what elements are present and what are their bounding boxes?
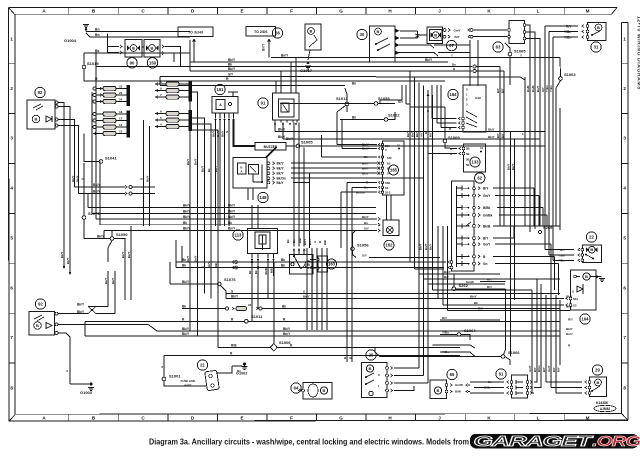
svg-text:Bk/Y: Bk/Y bbox=[183, 204, 191, 208]
svg-text:Bk/Y: Bk/Y bbox=[186, 256, 190, 262]
svg-text:S1022: S1022 bbox=[388, 113, 400, 118]
wire row Bk/Y pair lower bbox=[85, 321, 573, 336]
svg-text:21: 21 bbox=[200, 363, 205, 368]
grid row numbers right bbox=[623, 37, 626, 391]
wire row Bk/Y mid bbox=[226, 293, 573, 298]
svg-text:B/W: B/W bbox=[455, 390, 461, 394]
connector 163 bbox=[310, 256, 337, 272]
relay 133 bbox=[428, 144, 486, 172]
svg-text:R/B: R/B bbox=[298, 238, 302, 243]
node S1001 and fuse link 21 bbox=[162, 360, 219, 391]
svg-text:Diagram 3a. Ancillary circuits: Diagram 3a. Ancillary circuits - wash/wi… bbox=[149, 438, 469, 447]
node S1006 diamond bbox=[218, 262, 571, 351]
svg-text:4: 4 bbox=[10, 186, 13, 191]
svg-text:Bk/Y: Bk/Y bbox=[507, 164, 511, 170]
svg-text:B: B bbox=[132, 46, 135, 51]
grid row numbers left bbox=[10, 37, 13, 391]
svg-text:Bk/Y: Bk/Y bbox=[419, 244, 423, 250]
svg-text:63: 63 bbox=[496, 45, 501, 50]
svg-text:Bn/Y: Bn/Y bbox=[281, 54, 289, 58]
svg-text:V: V bbox=[385, 148, 387, 152]
svg-text:Bk/Y: Bk/Y bbox=[511, 164, 515, 170]
svg-text:S4: S4 bbox=[387, 172, 391, 176]
svg-text:L: L bbox=[537, 416, 540, 421]
svg-text:B: B bbox=[323, 388, 326, 393]
svg-text:Bk/Y: Bk/Y bbox=[183, 210, 191, 214]
intermittent wiper relay 161 bbox=[212, 84, 238, 120]
svg-text:J: J bbox=[438, 416, 441, 421]
svg-text:Bk/Y: Bk/Y bbox=[415, 131, 419, 137]
svg-text:62: 62 bbox=[477, 176, 482, 181]
svg-text:Bk/Y: Bk/Y bbox=[183, 215, 191, 219]
svg-text:B1: B1 bbox=[387, 167, 391, 171]
svg-text:12•70 WIRING DIAGRAMS: 12•70 WIRING DIAGRAMS bbox=[636, 16, 640, 90]
svg-text:Bk/Y: Bk/Y bbox=[228, 58, 236, 62]
svg-text:M: M bbox=[586, 416, 590, 421]
svg-text:Gn/W: Gn/W bbox=[466, 280, 474, 284]
svg-text:Y/Bn: Y/Bn bbox=[564, 30, 571, 34]
svg-text:22: 22 bbox=[589, 235, 594, 240]
fusebox group upper-right bbox=[155, 80, 192, 102]
svg-text:Bn: Bn bbox=[95, 33, 100, 37]
svg-text:Bk/Y: Bk/Y bbox=[212, 131, 216, 137]
svg-text:S1064: S1064 bbox=[464, 328, 476, 333]
svg-text:R/Y: R/Y bbox=[552, 367, 556, 372]
svg-text:66: 66 bbox=[275, 31, 280, 36]
node S1076 bbox=[170, 262, 236, 293]
svg-text:B/Y: B/Y bbox=[501, 88, 505, 93]
svg-text:6: 6 bbox=[623, 286, 626, 291]
svg-text:S1065: S1065 bbox=[514, 49, 526, 54]
svg-text:Bk/Y: Bk/Y bbox=[278, 135, 286, 139]
ground G1002 bbox=[216, 362, 248, 375]
svg-text:R/Y: R/Y bbox=[442, 316, 447, 320]
svg-text:Bk/Y: Bk/Y bbox=[111, 278, 115, 284]
svg-text:B: B bbox=[434, 33, 437, 38]
svg-text:R/Y: R/Y bbox=[557, 367, 561, 372]
wire bus upper runs bbox=[96, 40, 560, 85]
node S1041 bbox=[84, 134, 117, 164]
svg-text:R/Y: R/Y bbox=[478, 307, 483, 311]
ignition switch 30 bbox=[357, 26, 400, 62]
svg-text:Bn/Y: Bn/Y bbox=[411, 130, 415, 137]
connector 31 top right bbox=[545, 23, 606, 53]
wires from 161 pins down bbox=[212, 120, 230, 226]
grid row ticks right bbox=[622, 64, 628, 363]
ground G1003 bbox=[65, 369, 94, 395]
svg-text:B: B bbox=[437, 388, 440, 393]
svg-text:Bn/Y: Bn/Y bbox=[308, 238, 312, 245]
svg-text:Bk/Y: Bk/Y bbox=[127, 252, 131, 258]
svg-text:Bk/Y: Bk/Y bbox=[277, 181, 285, 185]
wire verticals between 30 and 164 bbox=[380, 85, 410, 104]
central locking control unit 148 bbox=[233, 158, 286, 203]
svg-text:Bk/Y: Bk/Y bbox=[121, 252, 125, 258]
fusebox group upper-left bbox=[93, 84, 130, 106]
wires from 92 bottom bbox=[58, 314, 157, 384]
svg-text:R: R bbox=[424, 132, 428, 134]
svg-text:Bn: Bn bbox=[95, 28, 100, 32]
svg-text:B: B bbox=[597, 380, 600, 385]
svg-text:Bn/Y: Bn/Y bbox=[444, 270, 451, 274]
wires into 164 bbox=[426, 85, 457, 128]
svg-text:Bk/Y: Bk/Y bbox=[278, 128, 286, 132]
svg-text:53A: 53A bbox=[385, 144, 390, 148]
alternator box E1 bbox=[305, 24, 321, 60]
wire Bn run row4 bbox=[160, 82, 356, 86]
svg-text:Bk: Bk bbox=[292, 239, 296, 243]
node S1056 bbox=[351, 231, 440, 258]
svg-text:91: 91 bbox=[261, 101, 266, 106]
svg-text:R/B: R/B bbox=[231, 343, 237, 347]
svg-text:B: B bbox=[307, 262, 310, 267]
svg-text:S1019: S1019 bbox=[87, 61, 99, 66]
svg-text:S1013: S1013 bbox=[336, 96, 348, 101]
svg-text:F: F bbox=[290, 416, 293, 421]
svg-text:Y/Bn: Y/Bn bbox=[549, 85, 553, 92]
svg-text:Bk: Bk bbox=[182, 264, 186, 268]
door lock motor 113 bbox=[233, 188, 278, 260]
svg-text:Bn/Y: Bn/Y bbox=[536, 85, 540, 92]
svg-text:Bk: Bk bbox=[281, 258, 285, 262]
svg-text:Bn/Y: Bn/Y bbox=[194, 158, 198, 165]
svg-text:B/Bk: B/Bk bbox=[483, 206, 490, 210]
wire Bn pair to G1004 bbox=[86, 28, 190, 38]
svg-text:148: 148 bbox=[260, 195, 268, 200]
grid column ticks top bbox=[69, 8, 565, 15]
svg-text:Gn/Y: Gn/Y bbox=[454, 29, 462, 33]
interior light connector 22 bbox=[545, 232, 602, 263]
wire left verticals bbox=[60, 120, 150, 275]
svg-text:5: 5 bbox=[623, 236, 626, 241]
svg-text:G1017: G1017 bbox=[300, 68, 313, 73]
svg-text:B/Y: B/Y bbox=[496, 88, 500, 93]
svg-text:B: B bbox=[349, 357, 353, 359]
svg-text:Bk/Y: Bk/Y bbox=[406, 131, 410, 137]
svg-text:B: B bbox=[377, 29, 380, 34]
svg-text:S1041: S1041 bbox=[105, 156, 117, 161]
wiper switch 164 bbox=[448, 85, 486, 132]
node S1022 bbox=[340, 112, 400, 121]
svg-text:FUSE LINK: FUSE LINK bbox=[181, 379, 196, 383]
inline connector 67 bbox=[427, 27, 507, 51]
junction dots rows bbox=[232, 261, 259, 269]
svg-text:8: 8 bbox=[623, 386, 626, 391]
svg-text:Bk/Y: Bk/Y bbox=[66, 258, 70, 264]
fusebox group lower-right bbox=[155, 109, 192, 131]
wire rows left mid bbox=[75, 160, 156, 195]
wires relay 91 connections bbox=[275, 58, 302, 247]
svg-text:G1002: G1002 bbox=[236, 372, 247, 376]
svg-text:R/B: R/B bbox=[323, 240, 327, 245]
svg-text:3: 3 bbox=[623, 136, 626, 141]
svg-text:Bk/Y: Bk/Y bbox=[146, 176, 150, 182]
svg-text:161: 161 bbox=[217, 87, 225, 92]
rear wash wipe unit 62 bbox=[448, 173, 493, 271]
svg-text:R/Y: R/Y bbox=[566, 25, 572, 29]
svg-text:Bn: Bn bbox=[364, 221, 368, 225]
grid column letters top bbox=[42, 9, 589, 14]
svg-text:B: B bbox=[35, 117, 38, 122]
svg-text:S: S bbox=[572, 289, 574, 293]
wire bus right verticals upper bbox=[541, 26, 553, 260]
svg-text:Gn/Y: Gn/Y bbox=[547, 365, 551, 372]
svg-text:164: 164 bbox=[450, 92, 458, 97]
svg-text:8: 8 bbox=[10, 386, 13, 391]
svg-text:Bk/Y: Bk/Y bbox=[228, 215, 236, 219]
svg-text:Bk/Y: Bk/Y bbox=[277, 167, 285, 171]
wires right of 62 bbox=[493, 188, 560, 295]
svg-text:Y: Y bbox=[451, 54, 453, 58]
svg-text:2: 2 bbox=[623, 86, 626, 91]
node S1064 bbox=[440, 316, 500, 340]
wires into 164 right bbox=[438, 295, 570, 311]
wires from 92 to fuse rows bbox=[58, 103, 79, 161]
svg-text:165: 165 bbox=[390, 168, 398, 173]
svg-text:B/Y: B/Y bbox=[542, 367, 546, 372]
wires from 113 down bbox=[248, 260, 274, 321]
washer pump 92 top bbox=[27, 87, 58, 129]
svg-text:Bk: Bk bbox=[254, 270, 258, 274]
wires from switch 30 bbox=[395, 45, 470, 56]
svg-text:6: 6 bbox=[10, 286, 13, 291]
node S1019 bbox=[82, 53, 99, 81]
relay 63 top bbox=[470, 21, 540, 233]
svg-text:N: N bbox=[225, 131, 229, 133]
svg-text:S3: S3 bbox=[573, 304, 577, 308]
svg-text:Bk/Y: Bk/Y bbox=[183, 227, 191, 231]
svg-text:20: 20 bbox=[119, 91, 123, 95]
wire R run bbox=[84, 77, 445, 81]
svg-text:Y: Y bbox=[521, 133, 525, 135]
svg-text:18: 18 bbox=[119, 110, 123, 114]
svg-text:Bk/Y: Bk/Y bbox=[228, 210, 236, 214]
connector 65 bbox=[430, 369, 470, 398]
node S1079 bbox=[82, 163, 100, 239]
svg-text:E: E bbox=[240, 416, 243, 421]
svg-text:B: B bbox=[36, 323, 39, 328]
svg-text:90: 90 bbox=[130, 60, 135, 65]
svg-text:S/Y: S/Y bbox=[362, 254, 367, 258]
svg-text:31: 31 bbox=[594, 45, 599, 50]
svg-text:GARAGET: GARAGET bbox=[474, 433, 594, 450]
wire left verticals lower bbox=[121, 226, 131, 300]
node S1055 bbox=[280, 96, 404, 105]
node S1050 bbox=[84, 230, 128, 300]
svg-text:Bk/Y: Bk/Y bbox=[362, 215, 369, 219]
svg-text:Bk/Y: Bk/Y bbox=[77, 302, 85, 306]
wire row R to S1001 bbox=[160, 352, 460, 378]
label TO 2/D6 bbox=[246, 27, 276, 58]
relay 91 bbox=[258, 88, 299, 125]
svg-text:S1009: S1009 bbox=[448, 135, 460, 140]
svg-text:U: U bbox=[378, 373, 380, 377]
svg-text:E: E bbox=[240, 9, 243, 14]
node S262 bbox=[452, 274, 505, 355]
svg-text:Bk/Y: Bk/Y bbox=[231, 294, 239, 298]
connector 66 bbox=[272, 28, 282, 38]
svg-text:B/Y: B/Y bbox=[496, 133, 500, 138]
svg-text:S3: S3 bbox=[385, 186, 389, 190]
wires from 148 to right bbox=[291, 162, 424, 183]
svg-text:1: 1 bbox=[623, 37, 626, 42]
svg-text:S/Y: S/Y bbox=[364, 227, 369, 231]
svg-text:5B: 5B bbox=[466, 152, 470, 156]
svg-text:Bn/Y: Bn/Y bbox=[362, 166, 369, 170]
svg-text:Gn/Bk: Gn/Bk bbox=[483, 214, 493, 218]
svg-text:Bk/Y: Bk/Y bbox=[182, 280, 190, 284]
svg-text:164: 164 bbox=[582, 317, 590, 322]
wiper motor unit 165 bbox=[379, 141, 405, 195]
svg-text:53-2: 53-2 bbox=[385, 191, 391, 195]
garaget.org logo bbox=[470, 433, 640, 450]
svg-text:22: 22 bbox=[119, 84, 123, 88]
svg-text:Y/Bn: Y/Bn bbox=[564, 36, 571, 40]
svg-text:61: 61 bbox=[499, 372, 504, 377]
svg-text:B: B bbox=[310, 29, 313, 34]
svg-text:Bk/B: Bk/B bbox=[483, 224, 491, 228]
svg-text:Bk/Y: Bk/Y bbox=[77, 310, 85, 314]
svg-text:16: 16 bbox=[119, 123, 123, 127]
node S1011 bbox=[85, 314, 573, 323]
svg-text:TO 3c/43: TO 3c/43 bbox=[188, 31, 203, 35]
svg-text:Bk/Y: Bk/Y bbox=[214, 166, 218, 172]
svg-text:R/Y: R/Y bbox=[568, 317, 573, 321]
svg-text:Bk/Y: Bk/Y bbox=[182, 332, 190, 336]
svg-text:Bn: Bn bbox=[352, 82, 356, 86]
svg-text:Bn/Y: Bn/Y bbox=[194, 255, 198, 262]
washer pump motor 162 bbox=[383, 195, 399, 250]
svg-text:65: 65 bbox=[450, 372, 455, 377]
heated rear window 64 bbox=[291, 383, 332, 400]
svg-text:Bk/Y: Bk/Y bbox=[186, 159, 190, 165]
svg-text:Bn/R: Bn/R bbox=[526, 85, 530, 92]
svg-text:5: 5 bbox=[10, 236, 13, 241]
wires fusebox right tails bbox=[186, 86, 218, 347]
ground G1017 bbox=[300, 62, 313, 74]
svg-text:Bk/Y: Bk/Y bbox=[488, 128, 495, 132]
svg-text:Bk/Y: Bk/Y bbox=[303, 294, 310, 298]
svg-text:S1056: S1056 bbox=[357, 243, 369, 248]
svg-text:Bk/Y: Bk/Y bbox=[97, 235, 105, 239]
svg-text:B/Y: B/Y bbox=[444, 275, 449, 279]
svg-text:1: 1 bbox=[10, 37, 13, 42]
svg-text:Bk: Bk bbox=[474, 301, 478, 305]
svg-text:S1076: S1076 bbox=[224, 277, 236, 282]
svg-text:31: 31 bbox=[397, 144, 400, 148]
svg-text:S1001: S1001 bbox=[169, 374, 181, 379]
svg-text:Bk/Y: Bk/Y bbox=[228, 204, 236, 208]
svg-text:B/Gn: B/Gn bbox=[537, 365, 541, 372]
svg-text:Bn/Y: Bn/Y bbox=[566, 332, 573, 336]
washer pump 92 bottom bbox=[29, 299, 58, 335]
svg-text:R/Y: R/Y bbox=[487, 285, 492, 289]
svg-text:31: 31 bbox=[480, 146, 484, 150]
svg-text:B/Y: B/Y bbox=[483, 187, 489, 191]
svg-text:Bk: Bk bbox=[207, 168, 211, 172]
svg-text:113: 113 bbox=[235, 233, 242, 238]
svg-text:Bn/Y: Bn/Y bbox=[424, 243, 428, 250]
svg-text:S1066: S1066 bbox=[508, 350, 520, 355]
svg-text:Y/Bn: Y/Bn bbox=[442, 331, 449, 335]
svg-text:.ORG: .ORG bbox=[592, 433, 640, 450]
svg-text:R/Y: R/Y bbox=[429, 132, 433, 137]
svg-text:Gn/Y: Gn/Y bbox=[483, 194, 491, 198]
svg-text:Bk/Y: Bk/Y bbox=[429, 244, 433, 250]
svg-text:S: S bbox=[303, 289, 305, 293]
svg-text:L: L bbox=[378, 384, 380, 388]
svg-text:Bk: Bk bbox=[248, 270, 252, 274]
svg-text:Gn/Y: Gn/Y bbox=[528, 365, 532, 372]
svg-text:Bk/R: Bk/R bbox=[264, 268, 268, 274]
wire row S bbox=[226, 289, 574, 293]
svg-text:Bk: Bk bbox=[228, 221, 232, 225]
svg-text:159: 159 bbox=[149, 60, 157, 65]
svg-text:Bn/Y: Bn/Y bbox=[262, 43, 266, 51]
svg-text:53A: 53A bbox=[573, 297, 578, 301]
grid row ticks left bbox=[9, 64, 15, 363]
connector 61 bbox=[470, 365, 541, 398]
svg-text:WIRE: WIRE bbox=[184, 384, 191, 388]
wire central vertical bus bbox=[406, 71, 433, 383]
wires buzzer down to central locking unit bbox=[266, 147, 304, 247]
wire rows mid left labels bbox=[88, 67, 380, 239]
wire rows Bk/Y pair from 91 bbox=[275, 128, 545, 139]
svg-text:Bn/Y: Bn/Y bbox=[216, 130, 220, 137]
svg-text:S269: S269 bbox=[543, 225, 553, 230]
wire verticals above 20 cluster bbox=[303, 238, 327, 330]
svg-text:Bk/Y: Bk/Y bbox=[488, 135, 495, 139]
node S269 bbox=[538, 225, 553, 234]
svg-text:S1005: S1005 bbox=[301, 140, 313, 145]
svg-text:B: B bbox=[590, 247, 593, 252]
svg-text:Bn: Bn bbox=[352, 116, 356, 120]
svg-text:S: S bbox=[231, 289, 233, 293]
svg-text:Bn: Bn bbox=[452, 63, 456, 67]
svg-text:29: 29 bbox=[595, 368, 600, 373]
svg-text:53C: 53C bbox=[387, 156, 392, 160]
node S1013 bbox=[336, 88, 349, 112]
svg-text:Bk/Y: Bk/Y bbox=[277, 172, 285, 176]
svg-text:S1063: S1063 bbox=[564, 72, 576, 77]
svg-text:Bk: Bk bbox=[281, 264, 285, 268]
svg-text:7: 7 bbox=[623, 335, 626, 340]
svg-text:B: B bbox=[151, 46, 154, 51]
svg-text:L: L bbox=[537, 9, 540, 14]
svg-text:Bk/Y: Bk/Y bbox=[425, 58, 433, 62]
svg-text:Bn/Y: Bn/Y bbox=[362, 161, 369, 165]
svg-text:92: 92 bbox=[38, 90, 43, 95]
wire rows bottom mid bbox=[433, 345, 476, 348]
svg-text:HJ/2: HJ/2 bbox=[475, 96, 481, 100]
svg-text:2: 2 bbox=[10, 86, 13, 91]
tailgate lock solenoid 29 bbox=[546, 365, 607, 397]
grid column ticks bottom bbox=[69, 414, 565, 421]
svg-text:Bk: Bk bbox=[282, 305, 286, 309]
svg-text:A: A bbox=[160, 366, 164, 368]
svg-text:5B: 5B bbox=[466, 158, 470, 162]
svg-text:A/Y: A/Y bbox=[420, 132, 424, 137]
wire pair verticals near 20 bbox=[343, 345, 353, 362]
svg-text:64: 64 bbox=[294, 386, 299, 391]
svg-text:R: R bbox=[318, 241, 322, 243]
node S1065 bbox=[505, 43, 526, 85]
wire Bk run bbox=[84, 49, 190, 53]
wires comp30 to 67 bbox=[400, 31, 427, 38]
svg-text:Bk/Y: Bk/Y bbox=[104, 278, 108, 284]
svg-text:B/Y: B/Y bbox=[483, 237, 489, 241]
node S1063 bbox=[556, 58, 576, 98]
